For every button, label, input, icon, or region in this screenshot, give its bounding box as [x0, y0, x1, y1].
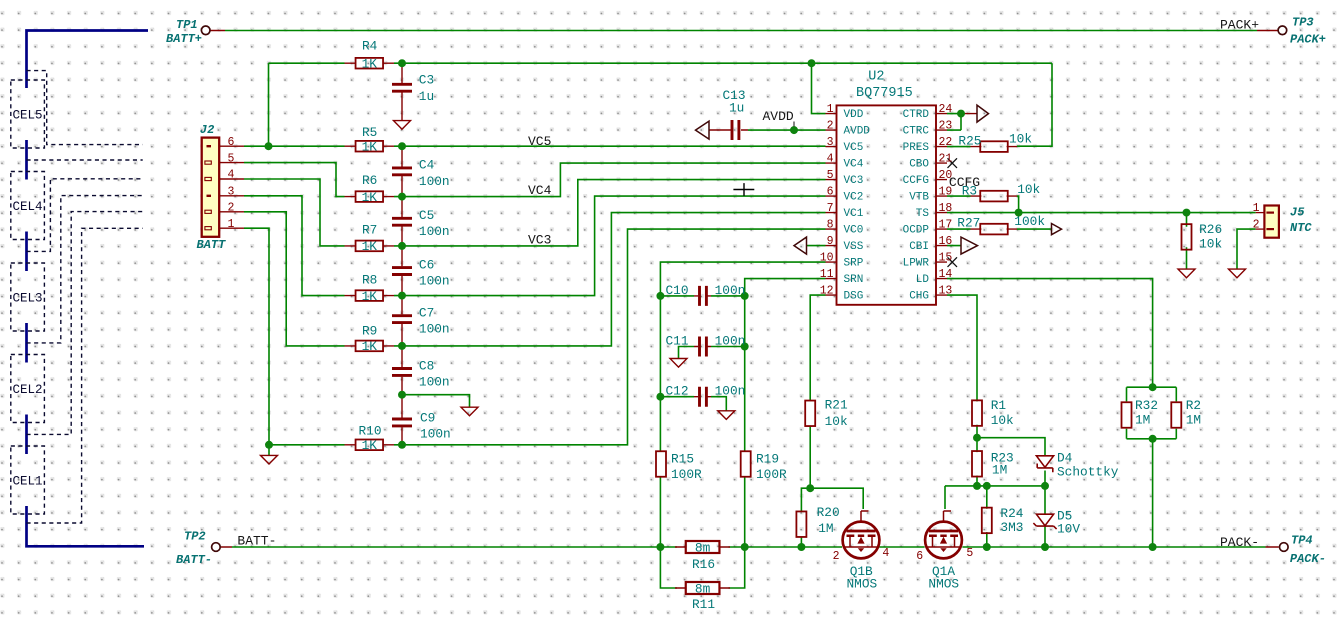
svg-text:100R: 100R	[756, 467, 787, 482]
svg-text:3: 3	[827, 136, 834, 149]
svg-text:BATT-: BATT-	[176, 553, 212, 567]
svg-text:J5: J5	[1290, 206, 1305, 220]
svg-text:CTRC: CTRC	[903, 126, 930, 138]
svg-text:1M: 1M	[1135, 413, 1150, 428]
svg-text:PACK-: PACK-	[1290, 552, 1326, 566]
svg-text:6: 6	[916, 550, 923, 563]
svg-text:R4: R4	[362, 39, 378, 54]
svg-text:R2: R2	[1186, 398, 1201, 413]
svg-text:1K: 1K	[362, 140, 378, 155]
svg-text:17: 17	[939, 218, 953, 231]
svg-text:20: 20	[939, 169, 953, 182]
svg-text:VC3: VC3	[528, 232, 551, 247]
svg-text:10k: 10k	[1017, 182, 1040, 197]
svg-text:12: 12	[820, 284, 834, 297]
svg-text:1K: 1K	[362, 190, 378, 205]
svg-text:100n: 100n	[419, 374, 450, 389]
svg-text:R11: R11	[692, 597, 715, 612]
svg-text:10V: 10V	[1057, 522, 1080, 537]
svg-text:2: 2	[228, 202, 235, 215]
svg-text:VC4: VC4	[528, 183, 552, 198]
svg-text:VC0: VC0	[844, 225, 864, 237]
svg-text:19: 19	[939, 185, 953, 198]
svg-text:3M3: 3M3	[1000, 520, 1023, 535]
svg-text:1K: 1K	[362, 339, 378, 354]
svg-text:3: 3	[228, 186, 235, 199]
svg-text:16: 16	[939, 235, 953, 248]
svg-text:1K: 1K	[362, 438, 378, 453]
svg-text:U2: U2	[868, 70, 884, 85]
svg-text:1M: 1M	[1186, 413, 1201, 428]
svg-text:1u: 1u	[729, 101, 744, 116]
svg-text:R5: R5	[362, 125, 377, 140]
svg-text:CCFG: CCFG	[903, 175, 929, 187]
svg-text:R27: R27	[957, 215, 980, 230]
svg-text:NMOS: NMOS	[847, 577, 878, 592]
svg-text:LPWR: LPWR	[903, 258, 930, 270]
svg-text:NMOS: NMOS	[928, 577, 959, 592]
svg-text:PACK+: PACK+	[1290, 32, 1326, 46]
svg-text:SRN: SRN	[844, 274, 864, 286]
svg-text:C4: C4	[419, 158, 435, 173]
svg-text:CEL5: CEL5	[13, 109, 43, 123]
svg-text:5: 5	[966, 547, 973, 560]
svg-text:1K: 1K	[362, 57, 378, 72]
svg-text:TS: TS	[916, 208, 930, 220]
svg-text:VC5: VC5	[844, 142, 864, 154]
svg-text:8m: 8m	[695, 581, 711, 596]
svg-text:100n: 100n	[419, 174, 450, 189]
svg-text:CEL1: CEL1	[13, 475, 43, 489]
svg-text:Schottky: Schottky	[1057, 464, 1119, 479]
svg-text:C5: C5	[419, 208, 434, 223]
svg-text:VC1: VC1	[844, 208, 864, 220]
svg-text:2: 2	[833, 550, 840, 563]
svg-text:R19: R19	[756, 451, 779, 466]
svg-text:4: 4	[827, 152, 834, 165]
svg-text:100n: 100n	[419, 274, 450, 289]
svg-text:21: 21	[939, 152, 953, 165]
svg-text:PACK-: PACK-	[1220, 535, 1259, 550]
svg-text:BATT+: BATT+	[166, 32, 202, 46]
svg-text:R21: R21	[825, 398, 848, 413]
svg-text:VTB: VTB	[909, 192, 929, 204]
svg-text:R16: R16	[692, 557, 715, 572]
svg-text:11: 11	[820, 268, 834, 281]
svg-text:VSS: VSS	[844, 241, 864, 253]
svg-text:CBO: CBO	[909, 159, 929, 171]
svg-text:18: 18	[939, 202, 953, 215]
svg-text:23: 23	[939, 119, 953, 132]
svg-text:1: 1	[1253, 202, 1260, 215]
svg-text:PRES: PRES	[903, 142, 930, 154]
svg-text:14: 14	[939, 268, 953, 281]
svg-text:7: 7	[827, 202, 834, 215]
svg-text:9: 9	[827, 235, 834, 248]
svg-text:VC4: VC4	[844, 159, 864, 171]
svg-text:R9: R9	[362, 323, 377, 338]
svg-text:R26: R26	[1199, 222, 1222, 237]
svg-text:6: 6	[228, 136, 235, 149]
svg-text:VC2: VC2	[844, 192, 864, 204]
svg-text:100n: 100n	[715, 283, 746, 298]
svg-text:R32: R32	[1135, 398, 1158, 413]
svg-text:15: 15	[939, 251, 953, 264]
svg-text:1K: 1K	[362, 239, 378, 254]
svg-text:VDD: VDD	[844, 109, 864, 121]
svg-text:10k: 10k	[991, 413, 1014, 428]
svg-text:R25: R25	[958, 133, 981, 148]
svg-text:1: 1	[228, 218, 235, 231]
svg-text:CEL4: CEL4	[13, 200, 43, 214]
svg-text:6: 6	[827, 185, 834, 198]
svg-text:100k: 100k	[1014, 214, 1045, 229]
svg-text:2: 2	[1253, 219, 1260, 232]
svg-text:10k: 10k	[825, 414, 848, 429]
svg-text:CEL2: CEL2	[13, 383, 43, 397]
svg-text:R1: R1	[991, 398, 1007, 413]
svg-text:4: 4	[228, 169, 235, 182]
svg-text:24: 24	[939, 103, 953, 116]
svg-text:CCFG: CCFG	[949, 175, 980, 190]
svg-text:TP1: TP1	[176, 18, 198, 32]
svg-text:SRP: SRP	[844, 258, 864, 270]
svg-text:22: 22	[939, 136, 953, 149]
svg-text:5: 5	[827, 169, 834, 182]
svg-text:OCDP: OCDP	[903, 225, 930, 237]
svg-text:R10: R10	[359, 424, 382, 439]
svg-text:VC5: VC5	[528, 134, 551, 149]
svg-text:TP2: TP2	[184, 530, 206, 544]
svg-text:1M: 1M	[818, 521, 833, 536]
svg-text:10k: 10k	[1199, 237, 1222, 252]
svg-text:100n: 100n	[420, 426, 451, 441]
svg-text:100n: 100n	[715, 333, 746, 348]
svg-text:BATT-: BATT-	[237, 534, 276, 549]
svg-text:C7: C7	[419, 306, 434, 321]
svg-text:10: 10	[820, 251, 834, 264]
svg-text:C3: C3	[419, 73, 434, 88]
svg-text:13: 13	[939, 284, 953, 297]
svg-text:AVDD: AVDD	[763, 109, 794, 124]
svg-text:5: 5	[228, 152, 235, 165]
svg-text:100n: 100n	[419, 322, 450, 337]
svg-text:LD: LD	[916, 274, 930, 286]
svg-text:C8: C8	[419, 358, 434, 373]
svg-text:2: 2	[827, 119, 834, 132]
svg-text:C11: C11	[666, 333, 689, 348]
svg-text:R20: R20	[817, 505, 840, 520]
svg-text:C9: C9	[420, 410, 435, 425]
svg-text:J2: J2	[200, 123, 214, 137]
svg-text:AVDD: AVDD	[844, 126, 871, 138]
svg-text:DSG: DSG	[844, 291, 864, 303]
svg-text:BQ77915: BQ77915	[856, 86, 913, 101]
svg-text:C10: C10	[666, 283, 689, 298]
svg-text:PACK+: PACK+	[1220, 18, 1259, 33]
svg-text:4: 4	[882, 547, 889, 560]
svg-text:VC3: VC3	[844, 175, 864, 187]
svg-text:CEL3: CEL3	[13, 292, 43, 306]
svg-text:8: 8	[827, 218, 834, 231]
svg-text:8m: 8m	[695, 540, 711, 555]
svg-text:C12: C12	[666, 384, 689, 399]
svg-text:R8: R8	[362, 272, 377, 287]
svg-text:1u: 1u	[419, 89, 434, 104]
svg-text:10k: 10k	[1009, 131, 1032, 146]
svg-text:BATT: BATT	[197, 238, 227, 252]
svg-text:1M: 1M	[992, 462, 1007, 477]
svg-text:1: 1	[827, 103, 834, 116]
svg-text:R6: R6	[362, 173, 377, 188]
svg-text:CTRD: CTRD	[903, 109, 930, 121]
svg-text:TP4: TP4	[1291, 534, 1313, 548]
svg-text:1K: 1K	[362, 289, 378, 304]
svg-text:TP3: TP3	[1292, 15, 1314, 29]
svg-text:R15: R15	[671, 451, 694, 466]
svg-text:CHG: CHG	[909, 291, 929, 303]
svg-text:R7: R7	[362, 222, 377, 237]
svg-text:100n: 100n	[419, 224, 450, 239]
svg-text:100n: 100n	[715, 384, 746, 399]
svg-text:NTC: NTC	[1290, 221, 1312, 235]
svg-text:C6: C6	[419, 257, 434, 272]
svg-text:100R: 100R	[671, 467, 702, 482]
svg-text:CBI: CBI	[909, 241, 929, 253]
